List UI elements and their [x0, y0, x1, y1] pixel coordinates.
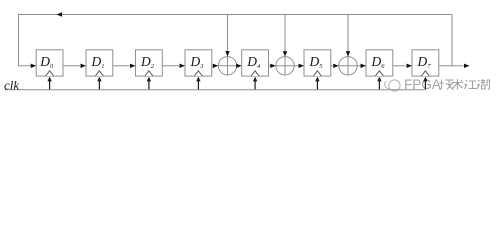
svg-text:clk: clk — [4, 78, 19, 93]
